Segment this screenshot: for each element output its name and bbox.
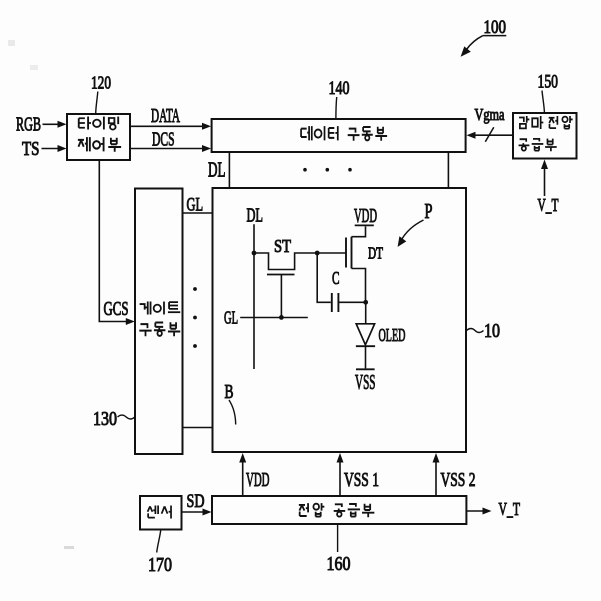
svg-text:DCS: DCS	[152, 130, 175, 151]
block U130 gate driver box	[135, 189, 183, 455]
label P	[425, 199, 433, 223]
svg-text:130: 130	[93, 409, 117, 430]
svg-text:DT: DT	[368, 244, 383, 263]
text 감마 전압 (gamma voltage)	[519, 116, 573, 129]
label 170	[148, 554, 172, 576]
transistor DT channel bar	[351, 237, 353, 269]
scan speck 2	[30, 65, 38, 70]
text 제어부 (controller)	[78, 137, 121, 152]
label RGB	[16, 115, 41, 136]
wire OLED to VSS	[365, 346, 367, 368]
svg-text:TS: TS	[22, 139, 40, 160]
leader arrow for 100	[461, 36, 483, 57]
scan speck 1	[8, 40, 15, 46]
label V_T (output)	[499, 499, 521, 519]
arrowhead GCS	[126, 318, 135, 325]
label 160	[327, 553, 351, 575]
svg-text:140: 140	[329, 78, 350, 99]
label VSS (pixel)	[355, 370, 376, 394]
text 공급부 (supply)	[519, 139, 557, 152]
label GCS	[104, 299, 129, 320]
label TS	[22, 139, 40, 160]
leader arrow P	[398, 220, 424, 247]
svg-text:160: 160	[327, 553, 351, 575]
transistor ST gate bar	[267, 274, 295, 276]
svg-text:GL: GL	[224, 308, 238, 328]
text 센서 (sensor)	[148, 506, 171, 519]
wire DCS arrow	[130, 145, 211, 152]
wire to OLED anode	[365, 302, 367, 324]
leader line 160	[337, 524, 339, 552]
svg-text:VSS: VSS	[355, 370, 376, 394]
leader line 120	[96, 92, 98, 114]
power VDD bar	[355, 224, 374, 226]
svg-text:V_T: V_T	[499, 499, 521, 519]
block U170 sensor box	[140, 496, 182, 530]
label V_T (gamma input)	[538, 195, 559, 215]
wire capacitor to DT source	[338, 301, 365, 303]
text 타이밍 (timing)	[79, 117, 118, 130]
squiggle leader 10	[467, 329, 484, 333]
transistor DT gate bar	[345, 238, 347, 268]
wire Vgma arrow	[467, 132, 514, 139]
wire ST gate to GL	[280, 275, 282, 318]
wire VDD to DT drain	[352, 226, 366, 236]
svg-text:VDD: VDD	[246, 470, 270, 491]
label DT	[368, 244, 383, 263]
wire bus right line	[447, 152, 449, 188]
svg-text:DL: DL	[208, 158, 226, 182]
wire DL bus left line	[228, 152, 230, 188]
svg-text:B: B	[225, 382, 234, 403]
wire lower gate connect	[183, 427, 213, 429]
svg-text:VSS 1: VSS 1	[344, 470, 379, 491]
svg-text:170: 170	[148, 554, 172, 576]
node DL junction dot	[252, 251, 257, 256]
wire DL to ST with channel dip	[254, 253, 346, 270]
svg-text:VDD: VDD	[354, 206, 377, 227]
wire DT source down	[352, 269, 366, 303]
svg-text:ST: ST	[274, 236, 291, 256]
label SD	[187, 491, 205, 512]
label 120	[91, 73, 111, 93]
label 140	[329, 78, 350, 99]
label GL (pixel gate line)	[224, 308, 238, 328]
label C	[332, 268, 340, 288]
label GL (bus)	[187, 195, 204, 216]
block U150 gamma voltage supply box	[513, 113, 577, 159]
wire DATA arrow	[130, 123, 211, 130]
slash tick on Vgma wire	[485, 127, 494, 142]
wire VSS1 supply arrow	[337, 453, 344, 496]
wire TS input arrow	[42, 145, 67, 152]
wire GCS path	[99, 160, 126, 322]
wire VDD supply arrow	[239, 453, 246, 496]
label 100 (overall device)	[483, 17, 507, 38]
squiggle leader 130	[118, 415, 135, 419]
label 150	[538, 72, 559, 93]
svg-text:VSS 2: VSS 2	[441, 470, 476, 491]
label 10	[484, 321, 500, 342]
ellipsis dots horizontal	[303, 168, 352, 172]
svg-text:OLED: OLED	[379, 325, 406, 345]
text 구동부 (driver)	[139, 322, 180, 336]
node storage node junction dot	[363, 300, 368, 305]
wire GL horizontal line	[240, 317, 308, 319]
svg-text:Vgma: Vgma	[475, 105, 505, 124]
svg-text:DATA: DATA	[151, 106, 180, 127]
label OLED	[379, 325, 406, 345]
leader line 140	[335, 97, 338, 118]
wire RGB input arrow	[43, 121, 67, 128]
svg-text:RGB: RGB	[16, 115, 41, 136]
svg-text:10: 10	[484, 321, 500, 342]
text 데이터 구동부 (data driver)	[301, 126, 387, 141]
block U120 timing controller box	[67, 114, 130, 160]
label 130	[93, 409, 117, 430]
diode OLED cathode bar	[356, 345, 375, 347]
wire V_T up arrow	[541, 160, 548, 197]
node GL junction dot	[279, 315, 284, 320]
scan speck 3	[64, 546, 74, 549]
wire to capacitor	[317, 253, 331, 302]
block U160 power supply box	[212, 496, 466, 524]
svg-text:DL: DL	[247, 206, 264, 227]
label Vgma	[475, 105, 505, 124]
text 전압 공급부 (voltage supply)	[299, 503, 375, 517]
label DATA	[151, 106, 180, 127]
leader line 170	[157, 530, 161, 553]
text 게이트 (gate)	[140, 302, 181, 315]
block U140 data driver box	[212, 119, 466, 152]
ellipsis dots vertical	[193, 287, 197, 348]
svg-text:P: P	[425, 199, 433, 223]
label VSS 1	[344, 470, 379, 491]
label VSS 2	[441, 470, 476, 491]
wire SD arrow	[182, 509, 212, 516]
svg-text:SD: SD	[187, 491, 205, 512]
label VDD (pixel)	[354, 206, 377, 227]
svg-text:120: 120	[91, 73, 111, 93]
svg-text:V_T: V_T	[538, 195, 559, 215]
node gate wire junction dot	[315, 251, 320, 256]
leader line 150	[542, 91, 544, 113]
wire V_T output arrow	[466, 508, 491, 515]
label B	[225, 382, 234, 403]
svg-text:GCS: GCS	[104, 299, 129, 320]
capacitor C plates	[332, 293, 339, 312]
label DCS	[152, 130, 175, 151]
label DL (bus)	[208, 158, 226, 182]
block display panel box	[213, 188, 467, 452]
squiggle leader B	[229, 400, 236, 425]
wire VSS2 supply arrow	[433, 453, 440, 496]
svg-text:C: C	[332, 268, 340, 288]
label DL (pixel data line)	[247, 206, 264, 227]
power VSS bar	[356, 368, 375, 370]
svg-text:150: 150	[538, 72, 559, 93]
label VDD (supply)	[246, 470, 270, 491]
label ST	[274, 236, 291, 256]
wire GL connect	[183, 212, 213, 214]
wire DL vertical line	[253, 224, 255, 369]
diode OLED triangle	[356, 324, 374, 345]
